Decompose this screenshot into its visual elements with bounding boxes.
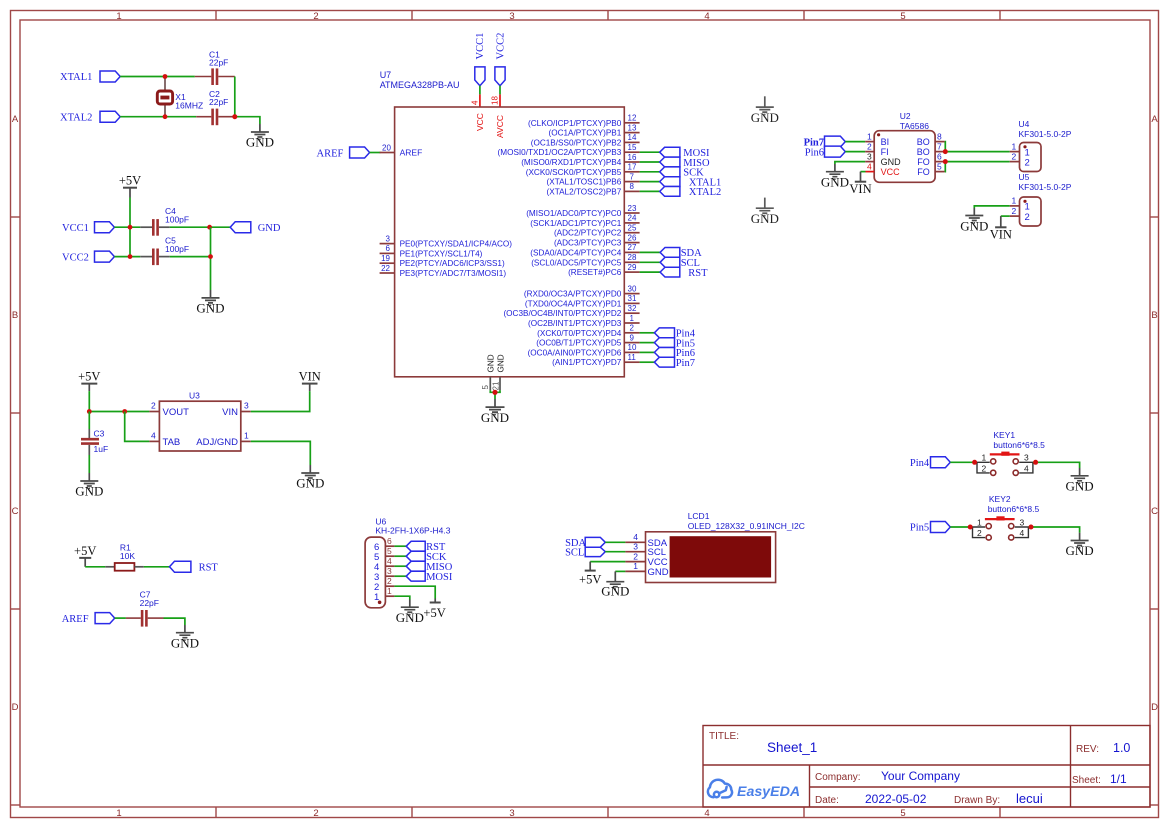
svg-text:KEY2: KEY2: [989, 494, 1011, 504]
svg-text:(XCK0/SCK0/PTCXY)PB5: (XCK0/SCK0/PTCXY)PB5: [526, 168, 622, 177]
svg-text:MOSI: MOSI: [426, 572, 453, 583]
svg-text:+5V: +5V: [78, 369, 100, 383]
right pins PB0-PB7: [624, 123, 639, 192]
right pins PD0-PD7: [624, 294, 639, 363]
svg-text:(OC0B/T1/PTCXY)PD5: (OC0B/T1/PTCXY)PD5: [536, 339, 622, 348]
wire +5V to U3: [89, 391, 149, 411]
port Pin5 (mcu): [654, 338, 695, 350]
svg-text:Pin5: Pin5: [910, 523, 929, 534]
port Pin7 (mcu): [654, 357, 695, 369]
LCD pin 1 GND: [625, 570, 645, 572]
junction XTAL1-X1: [163, 74, 168, 79]
svg-text:27: 27: [628, 243, 637, 252]
port MOSI (U6): [406, 571, 453, 583]
U5 pin 1: [1010, 205, 1020, 207]
U3 pin 3 VIN: [241, 411, 251, 413]
port AREF (C7): [62, 613, 115, 625]
wire +5V rail: [129, 198, 131, 257]
svg-text:RST: RST: [199, 563, 219, 574]
KEY2 contacts right: [1015, 527, 1031, 538]
svg-text:2: 2: [1025, 157, 1030, 168]
svg-text:2: 2: [630, 324, 635, 333]
pins 5,21 GND (bottom): [481, 354, 505, 390]
svg-text:Your Company: Your Company: [881, 769, 960, 783]
ground (U3 ADJ): [296, 465, 324, 491]
wire VIN to U3 pin3: [251, 391, 310, 411]
KEY1 contacts right: [1019, 462, 1035, 473]
port MISO (U6): [406, 561, 453, 573]
svg-text:PE3(PTCY/ADC7/T3/MOSI1): PE3(PTCY/ADC7/T3/MOSI1): [400, 269, 507, 278]
port XTAL2 (mcu): [660, 187, 722, 199]
svg-text:10: 10: [628, 343, 637, 352]
svg-text:1: 1: [1012, 196, 1017, 206]
port RST (mcu): [660, 267, 708, 279]
pin numbers 3,6,19,22 (PE0-PE3): [381, 234, 390, 272]
port RST: [170, 561, 219, 573]
svg-text:Sheet:: Sheet:: [1072, 775, 1101, 786]
svg-text:GND: GND: [258, 223, 281, 234]
wire VCC1: [114, 226, 140, 228]
wire VCC2: [114, 256, 140, 258]
ground (KEY2): [1066, 533, 1094, 559]
port MISO: [660, 157, 710, 169]
svg-text:1: 1: [630, 314, 635, 323]
svg-text:(AIN1/PTCXY)PD7: (AIN1/PTCXY)PD7: [552, 358, 622, 367]
port GND (left area): [230, 222, 281, 234]
wire R1 to RST: [144, 566, 170, 568]
U2 pin 2 FI: [865, 151, 874, 153]
pin 18 AVCC (red power pin): [490, 94, 500, 107]
junction KEY2 right: [1029, 525, 1034, 530]
left pins PE0-PE3: [380, 244, 395, 273]
svg-text:REV:: REV:: [1076, 744, 1099, 755]
svg-text:AREF: AREF: [400, 148, 423, 158]
svg-text:22pF: 22pF: [140, 598, 159, 608]
svg-text:A: A: [1151, 114, 1158, 125]
svg-text:VCC: VCC: [475, 113, 485, 131]
svg-text:(MISO1/ADC0/PTCY)PC0: (MISO1/ADC0/PTCY)PC0: [526, 209, 622, 218]
svg-text:30: 30: [628, 284, 637, 293]
svg-text:ATMEGA328PB-AU: ATMEGA328PB-AU: [380, 80, 460, 90]
svg-text:GND: GND: [296, 476, 324, 491]
svg-text:7: 7: [630, 172, 635, 181]
junction KEY1 right: [1033, 460, 1038, 465]
connector U5 KF301-5.0-2P: [1010, 172, 1072, 226]
svg-text:1/1: 1/1: [1110, 772, 1127, 786]
svg-text:1: 1: [116, 11, 121, 22]
junction KEY1 left: [972, 460, 977, 465]
junction U2.6: [943, 159, 948, 164]
resistor R1: [105, 543, 144, 571]
svg-text:EasyEDA: EasyEDA: [737, 784, 800, 800]
svg-text:1: 1: [116, 808, 121, 819]
svg-text:1: 1: [982, 453, 987, 463]
svg-text:32: 32: [628, 304, 637, 313]
U3 pin 4 TAB: [149, 440, 159, 442]
pin names PC0-PC6: [526, 209, 622, 277]
svg-text:+5V: +5V: [579, 573, 601, 587]
svg-text:OLED_128X32_0.91INCH_I2C: OLED_128X32_0.91INCH_I2C: [688, 521, 805, 531]
svg-text:19: 19: [381, 254, 390, 263]
svg-text:AVCC: AVCC: [495, 115, 505, 138]
svg-text:4: 4: [387, 556, 392, 566]
wire KEY1 to GND: [1033, 462, 1080, 468]
svg-text:6: 6: [386, 244, 391, 253]
port SCL (LCD): [565, 547, 605, 558]
svg-text:GND: GND: [481, 410, 509, 425]
svg-text:(OC2B/INT1/PTCXY)PD3: (OC2B/INT1/PTCXY)PD3: [528, 319, 622, 328]
svg-text:U2: U2: [900, 111, 911, 121]
svg-text:(XTAL2/TOSC2)PB7: (XTAL2/TOSC2)PB7: [547, 187, 622, 196]
svg-text:(XTAL1/TOSC1)PB6: (XTAL1/TOSC1)PB6: [547, 178, 622, 187]
port SDA (mcu): [660, 248, 702, 260]
svg-text:2: 2: [313, 11, 318, 22]
svg-text:U3: U3: [189, 390, 200, 400]
svg-text:2: 2: [867, 141, 872, 151]
svg-text:GND: GND: [1066, 543, 1094, 558]
port Pin4 (mcu): [654, 328, 695, 340]
svg-text:GND: GND: [171, 635, 199, 650]
svg-text:(TXD0/OC4A/PTCXY)PD1: (TXD0/OC4A/PTCXY)PD1: [525, 299, 622, 308]
svg-text:3: 3: [633, 542, 638, 552]
svg-text:+5V: +5V: [119, 174, 141, 188]
port Pin7 (U2): [804, 136, 846, 148]
mcu U7 body: [395, 107, 625, 377]
svg-text:VCC2: VCC2: [495, 33, 506, 60]
svg-text:TAB: TAB: [163, 437, 181, 448]
svg-text:U5: U5: [1019, 172, 1030, 182]
svg-text:XTAL2: XTAL2: [689, 187, 721, 198]
svg-text:(XCK0/T0/PTCXY)PD4: (XCK0/T0/PTCXY)PD4: [537, 329, 622, 338]
svg-text:3: 3: [509, 11, 514, 22]
power flag +5V (VCC group): [119, 174, 141, 198]
svg-text:GND: GND: [246, 135, 274, 150]
svg-text:3: 3: [387, 566, 392, 576]
pin names PE0-PE3: [400, 240, 513, 278]
svg-text:24: 24: [628, 214, 637, 223]
svg-text:2: 2: [151, 401, 156, 411]
svg-text:(SCL0/ADC5/PTCY)PC5: (SCL0/ADC5/PTCY)PC5: [531, 258, 622, 267]
svg-text:+5V: +5V: [74, 544, 96, 558]
pin numbers 30,31,32,1,2,9,10,11 (PD0-PD7): [628, 284, 637, 362]
wire U6.1 to GND: [394, 596, 409, 599]
svg-text:16: 16: [628, 153, 637, 162]
svg-text:5: 5: [937, 161, 942, 171]
connector U6 KH-2FH-1X6P-H4.3: [365, 516, 451, 607]
KEY1 labels: [993, 430, 1045, 450]
ground (U5): [960, 208, 988, 234]
port Pin4 (KEY1): [910, 457, 950, 469]
capacitor C2: [196, 89, 235, 125]
svg-text:1: 1: [867, 131, 872, 141]
svg-text:3: 3: [1024, 453, 1029, 463]
svg-text:25: 25: [628, 224, 637, 233]
junction TAB branch: [122, 409, 127, 414]
pin 20 AREF: [380, 143, 423, 157]
ground (standalone top): [751, 96, 779, 125]
svg-text:GND: GND: [751, 110, 779, 125]
svg-text:KH-2FH-1X6P-H4.3: KH-2FH-1X6P-H4.3: [375, 526, 450, 536]
wire XTAL1: [120, 76, 195, 78]
svg-text:(SCK1/ADC1/PTCY)PC1: (SCK1/ADC1/PTCY)PC1: [530, 219, 621, 228]
svg-text:10K: 10K: [120, 551, 135, 561]
svg-text:28: 28: [628, 253, 637, 262]
svg-text:BO: BO: [917, 147, 930, 157]
svg-text:(OC0A/AIN0/PTCXY)PD6: (OC0A/AIN0/PTCXY)PD6: [528, 348, 622, 357]
svg-text:3: 3: [386, 234, 391, 243]
port VCC1 (top, down-pointing): [475, 33, 486, 86]
svg-text:FI: FI: [881, 147, 889, 157]
port SCK: [660, 167, 704, 179]
wire C7 to GND: [164, 618, 185, 625]
svg-text:BI: BI: [881, 137, 890, 147]
wire XTAL2: [120, 116, 196, 118]
port Pin6 (U2): [805, 146, 846, 158]
right pins PC0-PC6: [624, 213, 639, 272]
power flag +5V (LCD): [579, 562, 601, 587]
svg-text:XTAL1: XTAL1: [60, 72, 92, 83]
svg-text:5: 5: [900, 11, 905, 22]
power flag VIN (U3): [299, 369, 321, 391]
svg-text:4: 4: [470, 100, 479, 105]
svg-text:6: 6: [937, 151, 942, 161]
wire Pin6 to U2.2: [845, 151, 865, 153]
svg-text:1.0: 1.0: [1113, 741, 1130, 755]
svg-text:Pin4: Pin4: [910, 458, 930, 469]
ground (standalone bottom): [751, 198, 779, 226]
wire Pin7 to U2.1: [845, 141, 865, 143]
U2 pin 5 FO: [935, 171, 945, 173]
svg-text:(OC1B/SS0/PTCXY)PB2: (OC1B/SS0/PTCXY)PB2: [531, 138, 622, 147]
U4 pin 1: [1010, 151, 1020, 153]
svg-text:3: 3: [509, 808, 514, 819]
svg-text:13: 13: [628, 123, 637, 132]
svg-text:23: 23: [628, 204, 637, 213]
chip U2 TA6586: [865, 111, 945, 182]
svg-text:GND: GND: [487, 354, 496, 372]
svg-text:C: C: [1151, 506, 1158, 517]
svg-text:16MHZ: 16MHZ: [175, 101, 203, 111]
svg-text:3: 3: [244, 401, 249, 411]
capacitor C3: [81, 412, 108, 456]
KEY2 labels: [988, 494, 1040, 514]
U3 pin 2 VOUT: [149, 411, 159, 413]
svg-text:2022-05-02: 2022-05-02: [865, 792, 927, 806]
wire VCC2 to pin18: [499, 86, 501, 95]
svg-text:22pF: 22pF: [209, 97, 228, 107]
capacitor C5: [140, 236, 189, 266]
svg-text:GND: GND: [196, 301, 224, 316]
svg-text:4: 4: [704, 808, 709, 819]
svg-text:7: 7: [937, 141, 942, 151]
LCD pin 3 SCL: [625, 551, 645, 553]
junction VCC1/+5V: [128, 225, 133, 230]
port Pin6 (mcu): [654, 348, 695, 360]
ground (KEY1): [1066, 468, 1094, 494]
svg-text:8: 8: [937, 131, 942, 141]
svg-text:1: 1: [1012, 141, 1017, 151]
svg-text:B: B: [1151, 310, 1157, 321]
svg-text:C: C: [12, 506, 19, 517]
wire +5V to R1: [85, 566, 105, 568]
wire Pin4 to KEY1: [950, 461, 977, 463]
U6 pin 6: [385, 545, 394, 547]
svg-text:22: 22: [381, 264, 390, 273]
svg-text:22pF: 22pF: [209, 57, 228, 67]
LCD pin 4 SDA: [625, 541, 645, 543]
svg-text:5: 5: [387, 546, 392, 556]
svg-text:PE1(PTCXY/SCL1/T4): PE1(PTCXY/SCL1/T4): [400, 249, 483, 258]
svg-text:LCD1: LCD1: [688, 511, 710, 521]
svg-text:100pF: 100pF: [165, 244, 189, 254]
svg-text:TA6586: TA6586: [900, 121, 929, 131]
svg-text:C3: C3: [94, 429, 105, 439]
svg-text:(ADC3/PTCY)PC3: (ADC3/PTCY)PC3: [554, 239, 622, 248]
svg-text:15: 15: [628, 143, 637, 152]
KEY1 actuator: [990, 453, 1020, 455]
junction U2.7: [943, 149, 948, 154]
junction KEY2 left: [968, 525, 973, 530]
LCD pin 2 VCC: [625, 561, 645, 563]
svg-text:VCC: VCC: [881, 167, 901, 177]
U3 pin 1 ADJ/GND: [241, 440, 251, 442]
svg-text:100pF: 100pF: [165, 215, 189, 225]
svg-text:Drawn By:: Drawn By:: [954, 795, 1000, 806]
svg-text:1uF: 1uF: [94, 444, 109, 454]
power flag VIN (U5 pin2): [990, 216, 1012, 241]
junction +5V/C3: [87, 409, 92, 414]
svg-text:D: D: [1151, 702, 1158, 713]
ground (U2 pin3): [821, 164, 849, 189]
svg-text:Pin6: Pin6: [805, 147, 824, 158]
U2 pin 8 BO: [935, 141, 945, 143]
svg-text:4: 4: [151, 430, 156, 440]
U6 pin 4: [385, 565, 394, 567]
power flag +5V (U3 group): [78, 369, 100, 391]
wire C3 to GND: [88, 455, 90, 473]
svg-text:4: 4: [867, 161, 872, 171]
svg-text:2: 2: [1012, 151, 1017, 161]
port XTAL2: [60, 111, 120, 123]
svg-text:1: 1: [977, 517, 982, 527]
svg-text:GND: GND: [396, 610, 424, 625]
port XTAL1 (mcu): [660, 177, 722, 189]
ground (C3): [75, 473, 103, 499]
svg-text:4: 4: [704, 11, 709, 22]
connector U4 KF301-5.0-2P: [1010, 119, 1072, 171]
TITLEBLOCK: [703, 726, 1150, 808]
port VCC2: [62, 251, 114, 263]
pin numbers 23-29 (PC0-PC6): [628, 204, 637, 272]
svg-text:5: 5: [481, 385, 490, 390]
U6 pin 5: [385, 555, 394, 557]
U2 pin 1 BI: [865, 141, 874, 143]
U2 pin 7 BO: [935, 151, 945, 153]
svg-text:B: B: [12, 310, 18, 321]
wire to GND: [235, 117, 260, 124]
wire U2.3 to GND: [835, 162, 865, 164]
ground (U6): [396, 600, 424, 626]
svg-text:2: 2: [633, 551, 638, 561]
U6 pin 3: [385, 575, 394, 577]
svg-text:AREF: AREF: [62, 614, 89, 625]
svg-text:12: 12: [628, 114, 637, 123]
wire VCC1 to pin4: [479, 86, 481, 95]
port RST (U6): [406, 541, 446, 553]
wire U2.6 to U4.2: [945, 161, 1009, 163]
switch KEY2: [970, 516, 1031, 540]
svg-text:ADJ/GND: ADJ/GND: [196, 437, 238, 448]
svg-text:VIN: VIN: [990, 227, 1012, 241]
wires PC4-PC6 to ports: [640, 252, 661, 272]
svg-text:14: 14: [628, 133, 637, 142]
wire KEY2 to GND: [1028, 527, 1079, 533]
port VCC1: [62, 222, 114, 234]
wire U6.2 to +5V: [394, 586, 435, 598]
svg-text:GND: GND: [75, 484, 103, 499]
svg-text:GND: GND: [821, 174, 849, 189]
svg-text:1: 1: [387, 586, 392, 596]
svg-text:(ADC2/PTCY)PC2: (ADC2/PTCY)PC2: [554, 229, 622, 238]
U2 pin 4 VCC: [866, 171, 875, 173]
KEY2 actuator: [985, 518, 1015, 520]
port XTAL1: [60, 71, 120, 83]
svg-text:+5V: +5V: [423, 606, 445, 620]
ground (C7): [171, 625, 199, 650]
wire AREF to pin20: [370, 152, 381, 154]
svg-text:2: 2: [982, 464, 987, 474]
svg-text:18: 18: [490, 96, 499, 105]
capacitor C7: [126, 590, 164, 627]
power flag VIN (U2 pin4): [849, 172, 871, 196]
svg-text:Company:: Company:: [815, 772, 861, 783]
svg-text:PE2(PTCY/ADC6/ICP3/SS1): PE2(PTCY/ADC6/ICP3/SS1): [400, 259, 505, 268]
svg-text:(OC1A/PTCXY)PB1: (OC1A/PTCXY)PB1: [549, 129, 622, 138]
svg-text:2: 2: [313, 808, 318, 819]
wires PD4-PD7 to ports: [640, 333, 655, 362]
svg-text:VIN: VIN: [222, 407, 238, 418]
mcu U7 label: [380, 70, 460, 90]
svg-text:6: 6: [387, 536, 392, 546]
U2 pin 6 FO: [935, 161, 945, 163]
svg-text:4: 4: [1020, 528, 1025, 538]
display LCD1: [625, 511, 804, 582]
svg-text:(RXD0/OC3A/PTCXY)PD0: (RXD0/OC3A/PTCXY)PD0: [524, 290, 622, 299]
svg-text:FO: FO: [917, 157, 930, 167]
KEY2 contacts left: [970, 527, 985, 538]
svg-text:1: 1: [244, 430, 249, 440]
wire +5V to LCD VCC: [590, 561, 625, 563]
svg-text:D: D: [12, 702, 19, 713]
wire GND pins join: [490, 390, 500, 399]
U5 pin 2: [1010, 215, 1020, 217]
EasyEDA logo: [708, 780, 800, 800]
svg-text:VOUT: VOUT: [163, 407, 190, 418]
U4 pin 2: [1010, 161, 1020, 163]
svg-text:17: 17: [628, 163, 637, 172]
svg-text:3: 3: [867, 151, 872, 161]
svg-text:26: 26: [628, 233, 637, 242]
svg-text:2: 2: [977, 528, 982, 538]
svg-text:VIN: VIN: [299, 369, 321, 383]
wire C5 to rail: [170, 256, 211, 258]
switch KEY1: [975, 452, 1036, 476]
ground (mcu): [481, 399, 509, 425]
wire SDA to LCD: [605, 541, 625, 543]
svg-text:GND: GND: [751, 211, 779, 226]
svg-text:5: 5: [900, 808, 905, 819]
U6 pin 2: [385, 585, 394, 587]
